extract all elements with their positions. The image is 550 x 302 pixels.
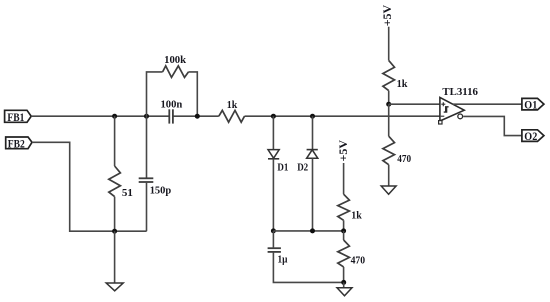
wire 51 bottom to bottom rail xyxy=(114,197,116,232)
wire reference node to comparator plus input xyxy=(389,103,440,105)
svg-text:+5V: +5V xyxy=(336,140,350,162)
wire FB2 down and along bottom to 150p branch xyxy=(32,142,147,231)
wire 1k divider bottom to clamp rail xyxy=(343,220,345,231)
wire 1k right to comparator minus input xyxy=(245,115,440,117)
resistor 1k (series input) xyxy=(219,99,245,122)
wire up-left side of 100k loop xyxy=(147,72,163,116)
wire divider mid to 470 xyxy=(343,231,345,240)
svg-text:O1: O1 xyxy=(524,98,537,112)
svg-text:+5V: +5V xyxy=(380,4,394,26)
ground (reference) xyxy=(381,186,396,194)
svg-text:470: 470 xyxy=(351,255,366,267)
wire right side of 100k loop down to main line xyxy=(189,72,198,116)
wire D2 bottom to clamp rail xyxy=(312,158,314,231)
port O1 xyxy=(522,98,544,112)
wire +5V to 1k divider xyxy=(343,163,345,194)
svg-text:1k: 1k xyxy=(351,210,362,222)
resistor 470 (reference lower) xyxy=(383,136,412,165)
svg-text:FB1: FB1 xyxy=(7,110,24,124)
node junction clamp rail at D1/1u xyxy=(271,228,276,233)
wire 51 branch top xyxy=(114,116,116,166)
ground (left) xyxy=(106,283,123,291)
wire D2 top xyxy=(312,116,314,149)
clamp rail wire D1 to divider xyxy=(273,230,343,232)
power +5V (divider) xyxy=(336,140,350,162)
node junction on main line at 100k/150p branch xyxy=(144,114,149,119)
capacitor 150p xyxy=(139,178,172,196)
svg-text:D2: D2 xyxy=(297,162,308,174)
svg-text:150p: 150p xyxy=(150,184,172,196)
wire 1u bottom to ground rail xyxy=(273,252,343,283)
svg-text:100k: 100k xyxy=(164,54,187,66)
wire down to ground xyxy=(114,231,116,283)
node junction on main line at 51-resistor branch xyxy=(112,114,117,119)
node junction divider mid xyxy=(341,228,346,233)
wire comparator output to O1 xyxy=(453,103,522,105)
wire 100n right plate to 1k left xyxy=(173,115,219,117)
svg-text:1k: 1k xyxy=(397,78,409,90)
capacitor 100n xyxy=(161,98,183,123)
capacitor 1u xyxy=(268,248,288,265)
inverted output bubble xyxy=(458,114,463,119)
node junction bottom rail / ground xyxy=(112,229,117,234)
resistor 470 (divider lower) xyxy=(338,240,366,267)
ground (bottom right) xyxy=(337,288,352,296)
wire inverted output to O2 xyxy=(463,116,522,135)
port FB2 xyxy=(6,137,32,151)
svg-text:51: 51 xyxy=(122,187,133,199)
wire to ground (bottom right) xyxy=(343,282,345,287)
diode D1 xyxy=(268,150,288,174)
pin plus mark xyxy=(441,102,445,106)
hysteresis mark xyxy=(444,107,449,112)
wire 150p bottom xyxy=(146,182,148,231)
resistor 100k xyxy=(163,54,189,77)
wire 470 bottom to ground rail xyxy=(343,267,345,283)
wire 470 bottom to ground xyxy=(388,165,390,186)
node junction main line at D1 xyxy=(271,114,276,119)
wire D1 bottom to clamp rail xyxy=(272,159,274,231)
svg-text:FB2: FB2 xyxy=(8,137,25,151)
node junction clamp rail at D2 xyxy=(310,228,315,233)
node junction ground rail xyxy=(341,280,346,285)
wire 1k bottom to reference node xyxy=(388,91,390,105)
port O2 xyxy=(522,129,544,143)
svg-text:O2: O2 xyxy=(524,129,537,143)
port FB1 xyxy=(5,110,32,124)
power +5V (comparator reference) xyxy=(380,4,394,26)
svg-text:1µ: 1µ xyxy=(278,254,289,266)
wire FB1 to 100n left plate (main signal line left) xyxy=(31,115,169,117)
svg-text:1k: 1k xyxy=(227,99,238,111)
wire 150p top xyxy=(146,116,148,178)
svg-text:470: 470 xyxy=(397,153,411,165)
svg-text:100n: 100n xyxy=(161,98,183,110)
svg-text:D1: D1 xyxy=(277,162,288,174)
resistor 1k (divider upper) xyxy=(338,194,363,221)
pin minus stub xyxy=(441,115,445,117)
node junction main line at D2 xyxy=(310,114,315,119)
node junction 100k right at main line xyxy=(195,114,200,119)
wire D1 top xyxy=(272,116,274,149)
wire 1u top xyxy=(272,231,274,248)
resistor 51 xyxy=(109,166,133,199)
node junction reference node xyxy=(386,102,391,107)
wire reference node down across main line to 470 xyxy=(388,104,390,136)
op-amp U1 TL3116 xyxy=(439,86,479,124)
resistor 1k (reference upper) xyxy=(383,60,408,90)
wire +5V down to 1k xyxy=(388,27,390,61)
svg-text:TL3116: TL3116 xyxy=(442,86,478,98)
power pin square xyxy=(439,121,442,124)
diode D2 xyxy=(297,150,318,174)
